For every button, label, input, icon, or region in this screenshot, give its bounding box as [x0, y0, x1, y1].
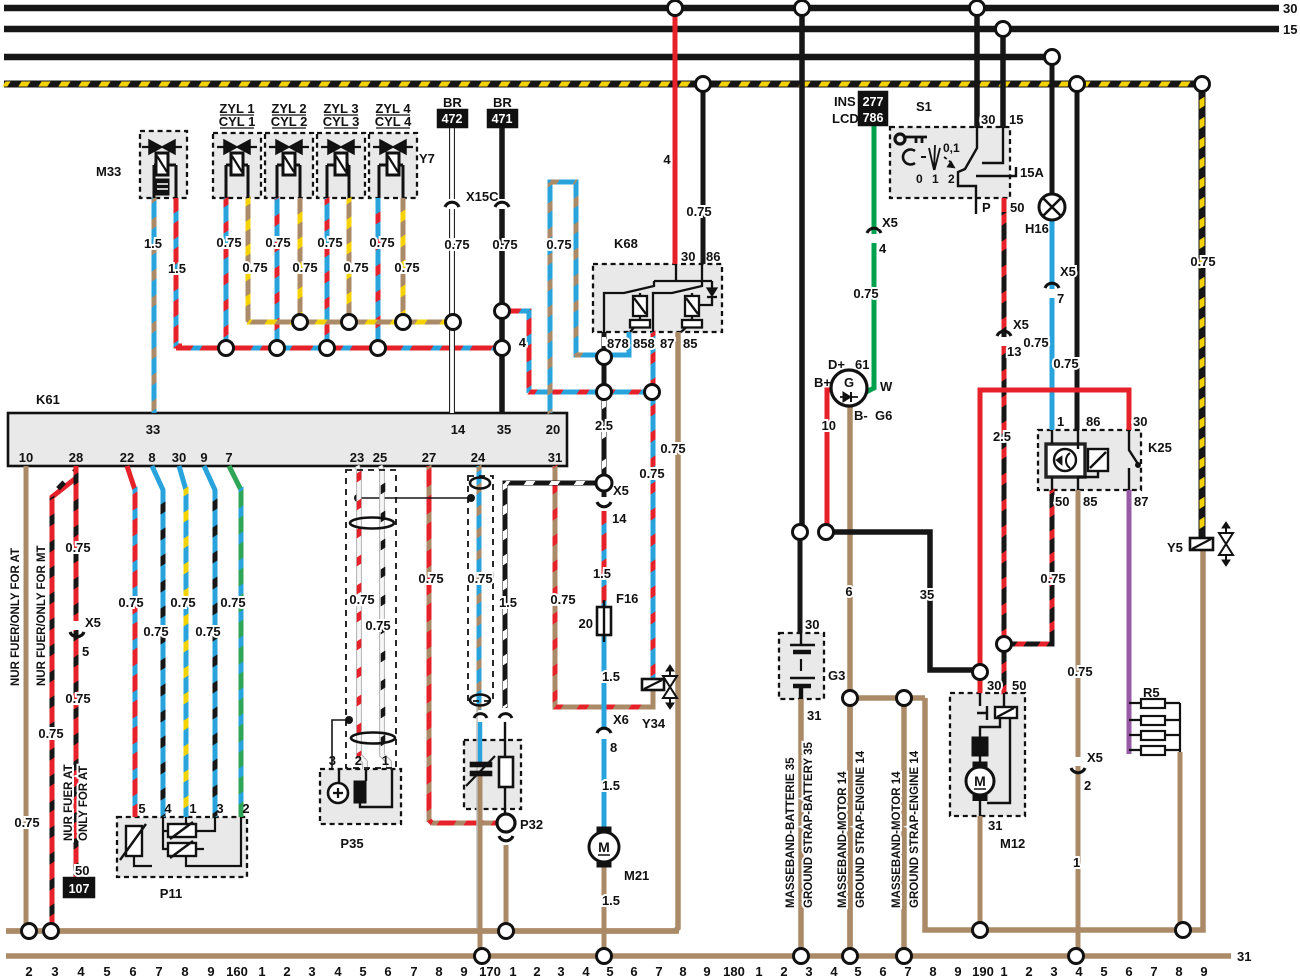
svg-text:6: 6	[384, 964, 391, 979]
vertical notes left	[10, 545, 90, 841]
svg-text:30: 30	[681, 249, 695, 264]
svg-text:7: 7	[904, 964, 911, 979]
svg-text:22: 22	[120, 450, 134, 465]
bottom current track numbers	[25, 964, 1207, 979]
wire brown M21 to ground bus	[602, 861, 607, 956]
labels middle wires	[418, 418, 685, 908]
svg-text:LCD: LCD	[832, 111, 859, 126]
svg-text:0.75: 0.75	[1053, 356, 1078, 371]
svg-text:8: 8	[929, 964, 936, 979]
node injector feed bus 1	[219, 341, 234, 356]
wire black/white K68 pin878 down	[602, 332, 607, 392]
wire white/red K61 pin23 to knock sensor P35	[357, 466, 365, 769]
svg-text:INS: INS	[834, 94, 856, 109]
svg-text:H16: H16	[1025, 221, 1049, 236]
svg-text:2: 2	[242, 801, 249, 816]
svg-text:0.75: 0.75	[365, 618, 390, 633]
shield clamp ellipse top	[350, 518, 394, 529]
BR 471 label box	[488, 110, 517, 127]
svg-text:2: 2	[1025, 964, 1032, 979]
svg-text:G3: G3	[828, 668, 845, 683]
svg-text:W: W	[880, 379, 893, 394]
wire black/red node up to K25 pin50	[1004, 490, 1052, 644]
svg-text:0.75: 0.75	[1040, 571, 1065, 586]
injector 4 symbol	[373, 140, 413, 198]
svg-text:27: 27	[422, 450, 436, 465]
svg-text:GROUND STRAP-BATTERY 35: GROUND STRAP-BATTERY 35	[803, 741, 815, 908]
control unit K61 box	[8, 413, 567, 466]
svg-text:35: 35	[920, 587, 934, 602]
ground bus 31 bottom	[6, 953, 1231, 959]
svg-text:0.75: 0.75	[65, 540, 90, 555]
node injector return bus 4	[396, 315, 411, 330]
K68 relay internals	[604, 264, 717, 332]
svg-text:4: 4	[164, 801, 172, 816]
bus bar 30	[4, 5, 1279, 12]
wire blue/red K68 pin87 down to Y34 coil	[651, 332, 656, 679]
node injector feed bus 2	[270, 341, 285, 356]
svg-text:30: 30	[172, 450, 186, 465]
svg-text:15: 15	[1283, 22, 1297, 37]
svg-text:28: 28	[69, 450, 83, 465]
svg-text:CYL 1: CYL 1	[219, 114, 256, 129]
svg-text:4: 4	[582, 964, 590, 979]
svg-text:472: 472	[442, 112, 463, 126]
node bus/H16	[1045, 50, 1060, 65]
svg-text:0.75: 0.75	[170, 595, 195, 610]
svg-text:0.75: 0.75	[546, 237, 571, 252]
svg-text:61: 61	[855, 357, 869, 372]
svg-text:5: 5	[1100, 964, 1107, 979]
wire blue H16 to K25 pin1	[1050, 219, 1055, 430]
node injector return bus 3	[342, 315, 357, 330]
svg-text:86: 86	[706, 249, 720, 264]
svg-text:CYL 4: CYL 4	[375, 114, 412, 129]
svg-text:10: 10	[19, 450, 33, 465]
svg-text:0.75: 0.75	[143, 624, 168, 639]
connector X15C arc right	[499, 199, 506, 209]
ground rail left segment	[6, 928, 679, 934]
connector X5 circle on 2.5 wire	[596, 475, 612, 491]
injector 1 symbol	[217, 140, 257, 198]
svg-text:GROUND STRAP-ENGINE 14: GROUND STRAP-ENGINE 14	[855, 750, 867, 908]
svg-text:0.75: 0.75	[216, 235, 241, 250]
node 2.5 wire / blue-red horizontal	[597, 385, 612, 400]
svg-text:X5: X5	[1013, 317, 1029, 332]
wire injector3 blue/red	[325, 198, 330, 348]
svg-text:5: 5	[854, 964, 861, 979]
svg-text:30: 30	[981, 112, 995, 127]
svg-text:K68: K68	[614, 236, 638, 251]
svg-text:9: 9	[1200, 964, 1207, 979]
wire black junction row to G3 battery	[798, 532, 803, 633]
svg-text:4: 4	[1075, 964, 1083, 979]
wire black bus30 down left of alternator	[799, 8, 805, 532]
wire injector1 blue/red	[224, 198, 229, 348]
wire green/blue K61 pin7 to P11 pin2	[229, 466, 241, 817]
ignition switch S1 internals	[895, 128, 1016, 214]
svg-text:K61: K61	[36, 392, 60, 407]
connector arc below P32	[499, 836, 513, 841]
BR 472 label box	[438, 110, 467, 127]
svg-text:0.75: 0.75	[265, 235, 290, 250]
svg-text:878: 878	[607, 336, 629, 351]
svg-text:0 1 2: 0 1 2	[916, 172, 958, 186]
wire brown link between ground straps	[850, 695, 925, 701]
svg-text:35: 35	[497, 422, 511, 437]
svg-text:1.5: 1.5	[499, 595, 517, 610]
wire M33 red/blue 1.5 to injector bus	[176, 198, 182, 346]
bus bar 15	[4, 26, 1279, 33]
svg-text:20: 20	[546, 422, 560, 437]
connector arc pair below P32 shield	[474, 714, 487, 718]
svg-text:1.5: 1.5	[602, 893, 620, 908]
svg-text:0.75: 0.75	[317, 235, 342, 250]
svg-text:87: 87	[1134, 494, 1148, 509]
svg-text:2: 2	[1084, 778, 1091, 793]
svg-text:K25: K25	[1148, 440, 1172, 455]
P11 resistor pack internals	[120, 817, 241, 866]
labels K61 bottom pins	[19, 450, 562, 465]
ignition switch S1 box	[890, 127, 1010, 198]
svg-text:170: 170	[479, 964, 501, 979]
svg-text:8: 8	[679, 964, 686, 979]
wire brown G3 31 to ground bus	[798, 699, 804, 956]
injector Y7 cyl2 box	[265, 133, 313, 198]
connection point P32	[497, 814, 515, 832]
shield drain thin line between screens	[332, 494, 477, 930]
wire injector2 blue/red	[275, 198, 280, 348]
svg-text:7: 7	[655, 964, 662, 979]
node bus30/S1	[970, 1, 985, 16]
wire red/blue K61 pin22 to P11 pin5	[127, 466, 135, 817]
node ground rail P32	[499, 924, 514, 939]
svg-text:CYL 2: CYL 2	[271, 114, 308, 129]
node engine strap right	[897, 691, 912, 706]
svg-text:786: 786	[863, 111, 884, 125]
svg-text:Y5: Y5	[1167, 540, 1183, 555]
wire black hazard bus to K25 pin86	[1075, 84, 1080, 430]
svg-text:160: 160	[226, 964, 248, 979]
svg-text:107: 107	[69, 882, 90, 896]
node bus31 engine strap left	[843, 949, 858, 964]
Y34 solenoid valve	[642, 665, 677, 709]
svg-text:0.75: 0.75	[118, 595, 143, 610]
wire blue into suppressor capacitor	[478, 722, 483, 762]
wire gauge labels injector area	[144, 152, 712, 276]
wire red/black S1 50 down to starter node	[1002, 198, 1007, 644]
node B+ / battery feed	[819, 525, 834, 540]
wire injector4 brown/yellow	[401, 198, 406, 322]
svg-text:4: 4	[663, 152, 671, 167]
svg-text:9: 9	[703, 964, 710, 979]
svg-text:S1: S1	[916, 99, 932, 114]
svg-text:0,1: 0,1	[943, 141, 960, 155]
wire blue/black K61 pin9 to P11 pin3	[204, 466, 215, 817]
wire white BR472 through X15C to K61 pin14	[449, 127, 455, 413]
svg-text:0.75: 0.75	[1190, 254, 1215, 269]
svg-text:14: 14	[612, 511, 627, 526]
svg-text:13: 13	[1007, 344, 1021, 359]
wire brown K25 pin85 to ground bus	[1076, 490, 1081, 956]
resistor pack P11 box	[117, 817, 247, 877]
svg-text:6: 6	[129, 964, 136, 979]
svg-text:M33: M33	[96, 164, 121, 179]
node injector feed bus 4	[371, 341, 386, 356]
wire M33 blue/brown 1.5 to K61 pin33	[152, 198, 157, 413]
battery G3 box	[779, 633, 824, 699]
wire black BR471 through X15C to K61 pin35	[499, 127, 505, 413]
svg-text:2: 2	[25, 964, 32, 979]
svg-text:0.75: 0.75	[343, 260, 368, 275]
svg-text:G: G	[844, 375, 854, 390]
wire brown engine ground strap left	[847, 698, 853, 956]
wire brown engine ground strap right	[901, 698, 907, 956]
svg-text:9: 9	[200, 450, 207, 465]
svg-text:1: 1	[1000, 964, 1007, 979]
svg-text:1: 1	[258, 964, 265, 979]
left area wire labels	[14, 540, 245, 830]
node ground rail pin10	[22, 924, 37, 939]
battery G3 internals	[790, 633, 815, 699]
svg-text:0.75: 0.75	[639, 466, 664, 481]
wire black/red node to M12 pin50	[1002, 644, 1007, 693]
svg-text:P32: P32	[520, 817, 543, 832]
svg-text:0.75: 0.75	[38, 726, 63, 741]
node bus31 battery strap	[794, 949, 809, 964]
svg-text:7: 7	[1150, 964, 1157, 979]
svg-text:31: 31	[548, 450, 562, 465]
svg-text:4: 4	[519, 335, 527, 350]
svg-text:50: 50	[1010, 200, 1024, 215]
svg-text:0.75: 0.75	[14, 815, 39, 830]
svg-text:M21: M21	[624, 868, 649, 883]
node injector return bus / BR472	[446, 315, 461, 330]
node black column / battery	[793, 525, 808, 540]
svg-text:4: 4	[830, 964, 838, 979]
svg-text:0.75: 0.75	[492, 237, 517, 252]
svg-text:15A: 15A	[1020, 165, 1044, 180]
svg-text:0.75: 0.75	[369, 235, 394, 250]
node hazard/K25 86	[1070, 77, 1085, 92]
wire injector1 brown/yellow	[248, 198, 250, 322]
svg-text:858: 858	[633, 336, 655, 351]
svg-text:31: 31	[807, 708, 821, 723]
node right rail M12 31	[973, 923, 988, 938]
relay K25 box	[1038, 430, 1141, 490]
shield clamp ellipse bottom	[351, 733, 395, 744]
svg-text:0.75: 0.75	[686, 204, 711, 219]
node bus30/alternator column	[795, 1, 810, 16]
svg-text:24: 24	[471, 450, 486, 465]
svg-text:1: 1	[509, 964, 516, 979]
wire red/blue 1.5 connector X5 to fuse F16	[602, 511, 607, 607]
wire blue/red horizontal to K68 area	[529, 390, 652, 395]
starter M12 internals	[966, 693, 1017, 816]
suppressor capacitor and resistor internals	[466, 722, 513, 814]
svg-text:50: 50	[1012, 678, 1026, 693]
svg-text:4: 4	[879, 241, 887, 256]
wire black bus30 to S1 terminal 30	[974, 8, 980, 128]
svg-text:D+: D+	[828, 357, 845, 372]
wire white/black K61 pin25 to knock sensor P35	[380, 466, 389, 769]
hazard-striped bus wire to Y5	[4, 83, 1202, 538]
svg-text:9: 9	[954, 964, 961, 979]
svg-text:0.75: 0.75	[1067, 664, 1092, 679]
svg-text:M12: M12	[1000, 836, 1025, 851]
wire black/white from connector X5 to suppressor resistor	[505, 483, 601, 708]
svg-text:X6: X6	[613, 712, 629, 727]
knock sensor P35 internals	[328, 769, 392, 807]
svg-text:G6: G6	[875, 408, 892, 423]
wire red bus30 to K68 pin30	[673, 8, 678, 264]
svg-text:0.75: 0.75	[195, 624, 220, 639]
labels K61 top pins	[146, 422, 560, 437]
svg-text:471: 471	[492, 112, 513, 126]
svg-text:1: 1	[755, 964, 762, 979]
lamp H16	[1039, 194, 1065, 220]
svg-text:86: 86	[1086, 414, 1100, 429]
svg-text:X5: X5	[1087, 750, 1103, 765]
wire blue/black K61 pin8 to P11 pin4	[152, 466, 163, 817]
svg-text:M: M	[598, 839, 610, 855]
wire black bus to lamp H16	[1050, 57, 1055, 196]
wire brown/red K61 pin31 to Y34 coil bottom	[555, 466, 653, 707]
labels ZYL/CYL	[219, 101, 412, 129]
svg-text:5: 5	[359, 964, 366, 979]
shielded pair blue/brown from K61 pin24	[477, 466, 482, 710]
svg-text:4: 4	[77, 964, 85, 979]
node BR471 wire / injector feed bus	[495, 341, 510, 356]
svg-text:5: 5	[606, 964, 613, 979]
connector X5 arc on K25-85 wire	[1071, 768, 1085, 773]
svg-text:3: 3	[308, 964, 315, 979]
node bus31 capacitor lead	[475, 949, 490, 964]
node engine strap left	[843, 691, 858, 706]
wire red into M12 pin30	[978, 672, 983, 693]
svg-text:7: 7	[410, 964, 417, 979]
vertical ground strap notes	[785, 741, 921, 908]
svg-text:6: 6	[879, 964, 886, 979]
wire injector3 brown/yellow	[347, 198, 352, 322]
svg-text:1.5: 1.5	[602, 778, 620, 793]
svg-text:5: 5	[82, 644, 89, 659]
svg-text:8: 8	[435, 964, 442, 979]
svg-text:MASSEBAND-MOTOR 14: MASSEBAND-MOTOR 14	[837, 771, 849, 908]
svg-text:NUR FUER AT: NUR FUER AT	[63, 764, 75, 841]
wire black/white 2.5 down to connector X5	[602, 392, 607, 476]
wire brown K61 pin10 to ground rail	[24, 466, 29, 931]
svg-text:25: 25	[373, 450, 387, 465]
svg-text:5: 5	[138, 801, 145, 816]
node bus15/S1	[996, 22, 1011, 37]
svg-text:31: 31	[988, 818, 1002, 833]
wire black 35 battery feed to starter junction	[826, 532, 980, 670]
labels P35	[349, 592, 390, 633]
node hazard corner Y5	[1195, 77, 1210, 92]
svg-text:31: 31	[1237, 949, 1251, 964]
pump motor M21	[589, 827, 619, 867]
injector Y7 cyl4 box	[369, 133, 417, 198]
svg-text:0.75: 0.75	[292, 260, 317, 275]
injector Y7 cyl3 box	[317, 133, 365, 198]
svg-text:30: 30	[987, 678, 1001, 693]
svg-text:P35: P35	[340, 836, 363, 851]
svg-text:20: 20	[579, 616, 593, 631]
svg-text:3: 3	[557, 964, 564, 979]
wire blue K68 pin858 elbow	[606, 332, 629, 355]
injector Y7 cyl1 box	[213, 133, 261, 198]
injector feed bus red/blue to BR471 junction	[176, 346, 503, 351]
svg-text:23: 23	[350, 450, 364, 465]
svg-text:7: 7	[225, 450, 232, 465]
svg-text:8: 8	[1175, 964, 1182, 979]
svg-text:X15C: X15C	[466, 189, 499, 204]
relay K68 box	[593, 264, 722, 332]
svg-text:1: 1	[382, 753, 389, 768]
wire brown capacitor lead down to ground bus	[478, 776, 483, 956]
svg-text:1: 1	[1057, 414, 1064, 429]
svg-text:180: 180	[723, 964, 745, 979]
svg-text:7: 7	[1057, 291, 1064, 306]
svg-text:2.5: 2.5	[595, 418, 613, 433]
svg-text:F16: F16	[616, 591, 638, 606]
wire black hazard bus to K68 pin86	[701, 84, 706, 264]
svg-text:87: 87	[660, 336, 674, 351]
injector 2 symbol	[269, 140, 309, 198]
svg-text:0.75: 0.75	[349, 592, 374, 607]
node starter 30	[973, 665, 988, 680]
fuse F16	[597, 600, 611, 642]
wire injector4 blue/red	[376, 198, 381, 348]
svg-text:CYL 3: CYL 3	[323, 114, 360, 129]
wire brown K68 pin85 down into left ground rail	[6, 332, 678, 931]
svg-text:7: 7	[155, 964, 162, 979]
svg-text:0.75: 0.75	[394, 260, 419, 275]
wire red starter 30 link to K25 30	[980, 390, 1129, 672]
svg-text:190: 190	[972, 964, 994, 979]
svg-text:GROUND STRAP-ENGINE 14: GROUND STRAP-ENGINE 14	[909, 750, 921, 908]
svg-text:X5: X5	[613, 483, 629, 498]
svg-text:2: 2	[533, 964, 540, 979]
svg-text:3: 3	[329, 753, 336, 768]
wire blue/brown 0.75 K61 pin20 loop to K68 junction	[550, 182, 600, 413]
connector arc 14 below X5	[602, 491, 607, 497]
svg-text:B-: B-	[854, 408, 868, 423]
svg-text:0.75: 0.75	[467, 571, 492, 586]
svg-text:NUR FUER/ONLY FOR MT: NUR FUER/ONLY FOR MT	[36, 545, 48, 686]
wire brown M12 pin31 to ground rail	[978, 816, 983, 930]
connector X5 arc on 50 wire	[997, 331, 1011, 336]
svg-text:9: 9	[460, 964, 467, 979]
node BR471 wire / red-blue 4	[495, 304, 510, 319]
svg-text:0.75: 0.75	[1023, 335, 1048, 350]
wire red/black K61 pin28 to connector 107	[74, 466, 79, 878]
svg-text:6: 6	[845, 584, 852, 599]
wire red alternator B+ down to junction	[827, 390, 832, 532]
svg-text:R5: R5	[1143, 685, 1160, 700]
wire red/blue 4 from BR471 junction down to K68 horizontal	[502, 311, 529, 392]
wire brown right ground rail M12/R5/Y5	[925, 549, 1203, 930]
svg-text:50: 50	[1055, 494, 1069, 509]
svg-text:30: 30	[1283, 1, 1297, 16]
svg-text:0.75: 0.75	[444, 237, 469, 252]
connector X5 arc on H16 wire	[1045, 283, 1059, 288]
wire black bus15 to S1 terminal 15	[1000, 29, 1006, 128]
svg-text:85: 85	[683, 336, 697, 351]
starter M12 box	[950, 693, 1025, 816]
alternator G6	[831, 370, 867, 406]
